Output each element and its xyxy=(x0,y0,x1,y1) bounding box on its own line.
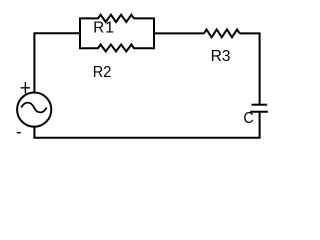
capacitor C top plate xyxy=(252,104,268,106)
AC source sine wave xyxy=(21,103,46,113)
minus polarity mark xyxy=(17,132,21,134)
wire: R3 to top-right corner, down to capacitor xyxy=(240,33,260,104)
wire: parallel network to R3 xyxy=(154,32,204,34)
resistor R3 xyxy=(204,30,240,38)
svg-text:R: R xyxy=(93,20,104,37)
wire: right edge of parallel network xyxy=(153,17,155,49)
svg-text:R3: R3 xyxy=(211,48,231,65)
wire: capacitor down, bottom rail, up to source bottom xyxy=(34,112,259,138)
wire: left edge of parallel network xyxy=(79,17,81,49)
resistor R2 (bottom parallel branch) xyxy=(80,45,154,52)
svg-text:1: 1 xyxy=(105,20,114,37)
svg-text:R2: R2 xyxy=(93,64,112,81)
AC voltage source circle xyxy=(17,93,51,127)
svg-text:C: C xyxy=(243,110,253,127)
resistor R1 (top parallel branch) xyxy=(80,15,154,22)
capacitor C bottom plate xyxy=(250,111,268,113)
plus polarity mark xyxy=(21,82,30,93)
wire: source top up and right to parallel network xyxy=(34,33,80,92)
